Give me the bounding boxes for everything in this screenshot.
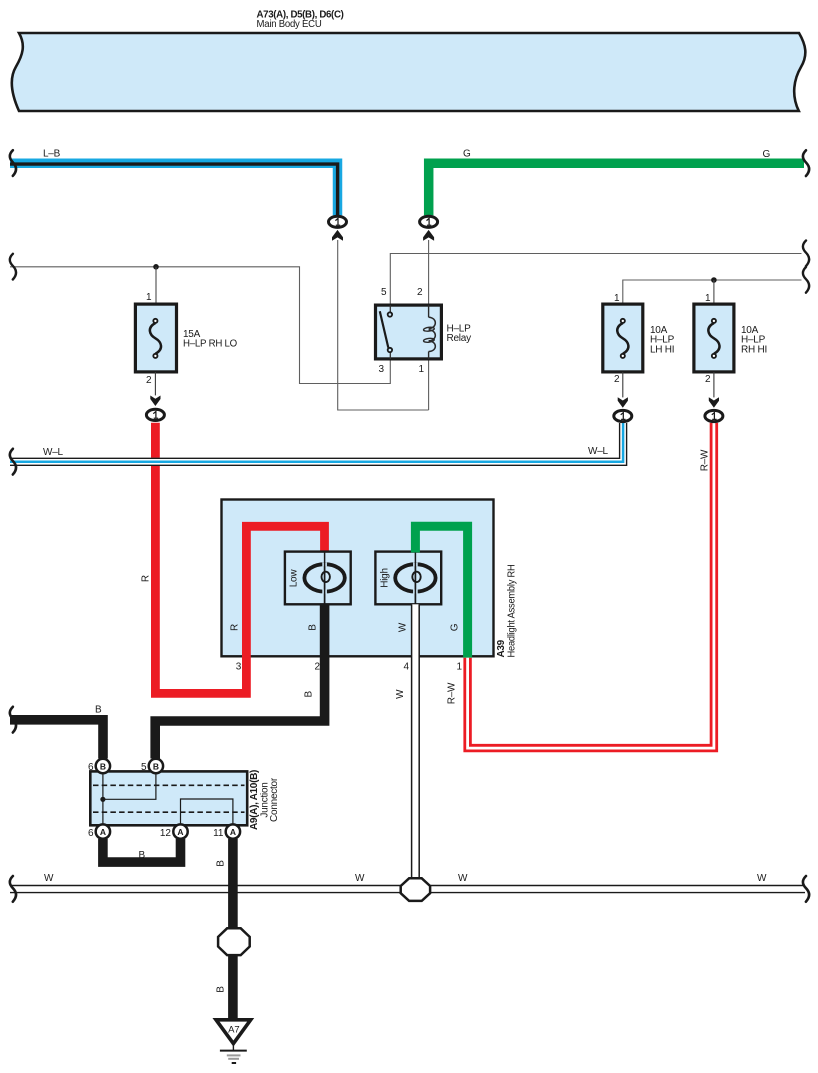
svg-text:1: 1: [614, 293, 620, 304]
svg-text:11: 11: [213, 828, 224, 839]
svg-text:R–W: R–W: [447, 682, 458, 704]
connector circle G (ECU pin): [420, 216, 438, 241]
svg-text:A: A: [100, 827, 106, 837]
fuse 15A H-LP RH LO: [135, 292, 237, 386]
svg-text:B: B: [216, 860, 227, 867]
svg-text:W–L: W–L: [43, 447, 64, 458]
svg-text:W: W: [398, 622, 409, 632]
break symbol right thin wire y253: [803, 241, 809, 267]
wire B (low bulb to junction connector 5B): [155, 604, 324, 758]
arrow into connector fuse4: [709, 397, 719, 408]
svg-text:R–W: R–W: [700, 449, 711, 471]
wire fuse4 pin1 (thin): [713, 280, 715, 304]
svg-text:A7: A7: [228, 1025, 240, 1036]
svg-text:Low: Low: [289, 569, 300, 588]
break symbol right G: [803, 150, 809, 176]
svg-text:12: 12: [160, 828, 172, 839]
svg-text:W: W: [395, 689, 406, 699]
splice octagon on B wire: [218, 928, 250, 955]
junction dot fuse4 supply: [711, 277, 717, 283]
wire fuse1 pin2 (thin): [154, 372, 156, 396]
svg-text:RH HI: RH HI: [741, 345, 767, 356]
svg-text:B: B: [308, 624, 319, 631]
wire B (11A to ground): [216, 839, 233, 1020]
wire L-B: [10, 149, 338, 216]
svg-text:5: 5: [381, 287, 387, 298]
junction dot fuse1 supply: [153, 264, 159, 270]
svg-text:B: B: [95, 705, 102, 716]
relay H-LP: [376, 287, 472, 375]
wire fuse4 pin2 (thin): [713, 372, 715, 398]
svg-text:W: W: [458, 873, 468, 884]
svg-text:3: 3: [378, 364, 384, 375]
svg-text:L–B: L–B: [43, 149, 61, 160]
arrow into connector fuse1: [150, 396, 160, 407]
svg-text:R: R: [230, 624, 241, 631]
svg-text:G: G: [763, 149, 771, 160]
connector circle 6B: [88, 759, 110, 773]
connector circle 12A: [160, 824, 188, 839]
svg-text:W: W: [757, 873, 767, 884]
connector circle L-B (ECU pin): [329, 216, 347, 241]
bulb High: [375, 552, 441, 605]
svg-text:B: B: [100, 762, 106, 772]
svg-text:1: 1: [418, 364, 424, 375]
svg-text:Headlight Assembly RH: Headlight Assembly RH: [506, 564, 517, 657]
svg-text:G: G: [463, 149, 471, 160]
svg-text:2: 2: [146, 375, 152, 386]
svg-text:2: 2: [705, 374, 711, 385]
svg-text:A: A: [177, 827, 183, 837]
splice octagon on W line: [401, 878, 430, 901]
connector circle 6A: [88, 824, 110, 839]
connector circle 5B: [141, 759, 163, 773]
svg-text:B: B: [153, 762, 159, 772]
svg-text:1: 1: [705, 293, 711, 304]
connector circle fuse3 output: [614, 410, 632, 421]
break symbol right thin wire y280: [803, 267, 809, 293]
wire G from ECU: [429, 149, 804, 216]
break symbol left W-L: [10, 449, 16, 475]
svg-text:3: 3: [236, 662, 242, 673]
main body ECU band: [12, 10, 806, 112]
svg-text:W: W: [44, 873, 54, 884]
pin numbers headlight assembly: [236, 662, 463, 673]
svg-text:High: High: [380, 568, 391, 588]
wire relay coil path (thin): [338, 240, 429, 410]
svg-text:1: 1: [146, 292, 152, 303]
fuse 10A H-LP RH HI: [694, 293, 767, 385]
svg-text:2: 2: [417, 287, 423, 298]
bulb Low: [285, 552, 351, 605]
wire W main horizontal: [10, 873, 805, 893]
connector circle 11A: [213, 824, 240, 839]
break symbol left B: [10, 707, 16, 733]
ground A7: [216, 1020, 251, 1063]
wire R-W (headlight pin1 to fuse4): [447, 423, 714, 748]
wire W-L (fuse3 output to left): [10, 423, 627, 465]
wire R (fuse1 to headlight pin3 low): [155, 423, 324, 694]
svg-text:B: B: [139, 850, 146, 861]
junction connector A9(A) A10(B): [90, 770, 279, 830]
svg-text:5: 5: [141, 762, 147, 773]
wire W (high bulb to splice octagon): [395, 604, 419, 878]
connector circle fuse4 output: [705, 410, 723, 421]
svg-text:6: 6: [88, 828, 94, 839]
svg-text:Relay: Relay: [447, 333, 472, 344]
svg-text:R: R: [141, 575, 152, 582]
svg-text:H–LP RH LO: H–LP RH LO: [183, 339, 237, 350]
svg-text:A: A: [230, 827, 236, 837]
svg-text:6: 6: [88, 762, 94, 773]
svg-text:G: G: [450, 623, 461, 631]
svg-text:A9(A), A10(B): A9(A), A10(B): [249, 770, 260, 830]
wire B from left break: [10, 705, 103, 759]
svg-text:W: W: [355, 873, 365, 884]
wire B loop 6A-12A: [103, 839, 181, 862]
wire G inside assembly (high beam feed): [415, 526, 467, 658]
svg-text:Main Body ECU: Main Body ECU: [257, 19, 322, 30]
svg-text:LH HI: LH HI: [650, 345, 674, 356]
svg-text:1: 1: [456, 662, 462, 673]
svg-text:B: B: [216, 986, 227, 993]
headlight assembly A39 box: [222, 500, 518, 658]
wire left supply (thin): [10, 267, 390, 384]
svg-text:2: 2: [314, 662, 320, 673]
break symbol left thin wire y266: [10, 254, 16, 280]
svg-text:A39: A39: [496, 639, 507, 657]
svg-text:4: 4: [403, 662, 409, 673]
wire right supply (thin): [623, 280, 802, 304]
wire relay pin5 to right break (thin): [390, 254, 801, 306]
break symbol left W: [10, 876, 16, 902]
break symbol right W: [803, 876, 809, 902]
break symbol left L-B: [10, 150, 16, 176]
fuse 10A H-LP LH HI: [603, 293, 675, 385]
svg-text:2: 2: [614, 374, 620, 385]
svg-text:W–L: W–L: [588, 446, 609, 457]
svg-text:B: B: [304, 691, 315, 698]
arrow into connector fuse3: [618, 397, 628, 408]
wire fuse3 pin2 (thin): [622, 372, 624, 398]
svg-text:Connector: Connector: [269, 777, 280, 822]
connector circle fuse1 output: [146, 409, 164, 420]
wire fuse1 pin1 (thin): [155, 267, 157, 304]
